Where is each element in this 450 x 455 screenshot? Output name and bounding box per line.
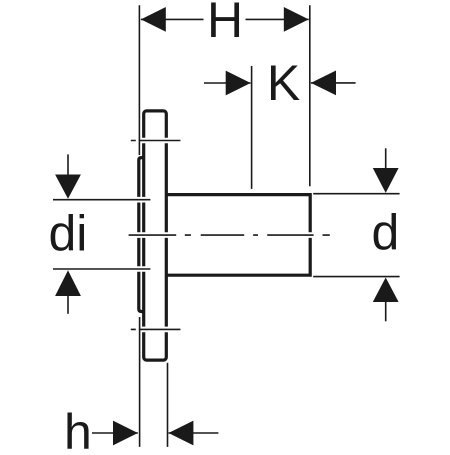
svg-text:h: h xyxy=(64,404,92,450)
di dimension line top (halo) xyxy=(53,197,150,203)
d extension line top xyxy=(313,193,399,195)
d arrow down xyxy=(373,168,399,193)
bolt circle line bottom (halo) xyxy=(131,327,181,333)
h dimension line right xyxy=(169,432,219,434)
flange plate outline xyxy=(144,111,167,360)
centre line (halo) xyxy=(129,232,330,238)
K extension line left xyxy=(251,66,253,189)
centre line xyxy=(129,234,330,236)
K arrow right xyxy=(311,71,336,96)
di dimension line bottom xyxy=(53,268,150,270)
svg-text:H: H xyxy=(207,0,243,48)
K arrow left xyxy=(226,71,251,96)
h arrow left xyxy=(113,421,138,446)
d arrow down shaft xyxy=(385,148,387,172)
di dimension line top xyxy=(53,199,150,201)
di arrow up xyxy=(55,270,81,296)
svg-text:K: K xyxy=(267,55,300,111)
svg-text:d: d xyxy=(372,205,400,261)
H arrow left xyxy=(141,7,166,32)
h extension line left xyxy=(139,317,141,447)
K dimension line xyxy=(204,82,356,84)
di arrow down xyxy=(55,175,81,199)
collar behind flange xyxy=(139,158,145,312)
bolt circle line bottom xyxy=(131,328,181,330)
H dimension line xyxy=(141,18,309,20)
pipe spigot xyxy=(166,195,311,276)
di dimension line bottom (halo) xyxy=(53,266,150,272)
di arrow down shaft xyxy=(67,154,69,180)
di arrow up shaft xyxy=(67,290,69,314)
svg-text:di: di xyxy=(49,206,88,262)
d arrow up xyxy=(373,278,399,303)
bolt circle line top (halo) xyxy=(131,138,181,144)
h arrow right xyxy=(169,421,194,446)
H extension line left xyxy=(138,5,140,155)
H arrow right xyxy=(284,7,309,32)
h dimension line left xyxy=(92,432,138,434)
H K extension line right xyxy=(309,5,311,186)
h extension line right xyxy=(167,363,169,447)
d extension line bottom xyxy=(313,276,399,278)
d arrow up shaft xyxy=(385,298,387,321)
bolt circle line top xyxy=(131,140,181,142)
